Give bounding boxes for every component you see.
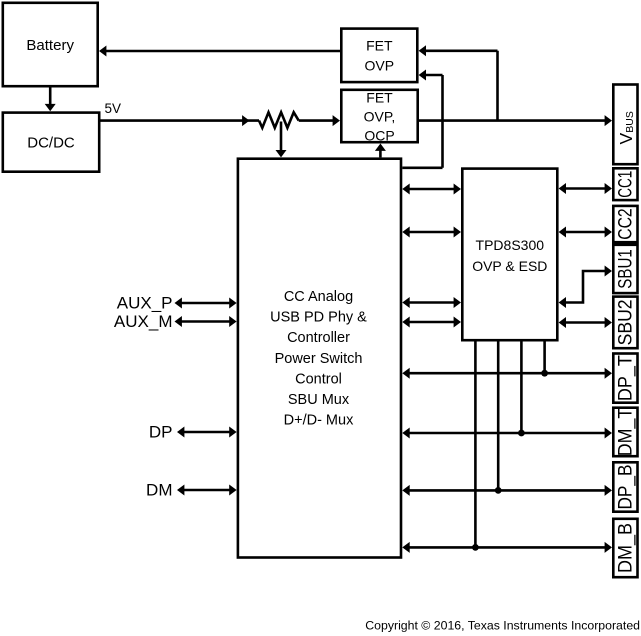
svg-text:FET: FET (366, 90, 393, 106)
svg-text:OVP: OVP (365, 57, 395, 73)
svg-text:SBU Mux: SBU Mux (288, 392, 350, 408)
svg-text:SBU2: SBU2 (616, 299, 637, 345)
svg-text:DP: DP (149, 423, 173, 442)
svg-text:FET: FET (366, 37, 393, 53)
svg-text:DP_B: DP_B (616, 465, 637, 510)
svg-text:CC2: CC2 (616, 208, 637, 240)
svg-text:DC/DC: DC/DC (27, 135, 75, 152)
svg-text:D+/D- Mux: D+/D- Mux (284, 413, 354, 429)
svg-text:Power Switch: Power Switch (275, 351, 363, 367)
svg-text:Controller: Controller (287, 330, 350, 346)
svg-text:SBU1: SBU1 (616, 249, 637, 289)
svg-text:CC1: CC1 (616, 171, 637, 198)
svg-text:DM_B: DM_B (616, 523, 637, 573)
svg-text:OVP,: OVP, (364, 109, 396, 125)
svg-text:CC Analog: CC Analog (284, 289, 353, 305)
svg-text:DM: DM (146, 481, 172, 500)
svg-text:5V: 5V (105, 101, 122, 116)
svg-text:DP_T: DP_T (616, 355, 637, 401)
svg-text:AUX_M: AUX_M (114, 312, 173, 331)
svg-text:Control: Control (295, 371, 342, 387)
svg-text:TPD8S300: TPD8S300 (476, 237, 545, 253)
svg-text:USB PD Phy &: USB PD Phy & (270, 309, 367, 325)
svg-text:Battery: Battery (26, 37, 74, 54)
svg-text:AUX_P: AUX_P (117, 294, 173, 313)
svg-text:OVP & ESD: OVP & ESD (472, 258, 547, 274)
svg-text:OCP: OCP (364, 128, 394, 144)
svg-text:DM_T: DM_T (616, 407, 637, 456)
svg-text:Copyright © 2016, Texas Instru: Copyright © 2016, Texas Instruments Inco… (365, 619, 640, 633)
